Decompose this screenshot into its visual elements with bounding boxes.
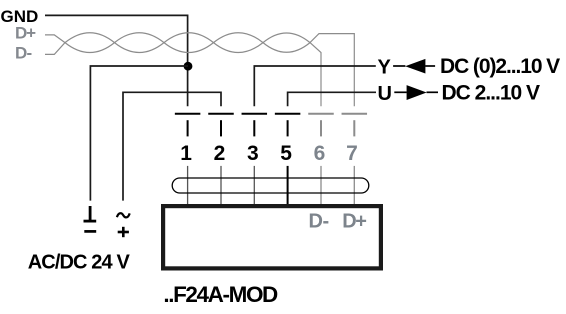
twisted pair wire D+ bbox=[45, 33, 354, 107]
actuator box ..F24A-MOD bbox=[163, 206, 381, 268]
wire terminal 5 into actuator bbox=[287, 166, 289, 204]
svg-text:D+: D+ bbox=[15, 23, 36, 42]
svg-text:Y: Y bbox=[378, 57, 392, 79]
svg-text:..F24A-MOD: ..F24A-MOD bbox=[163, 282, 278, 307]
svg-text:7: 7 bbox=[346, 142, 358, 165]
terminal 7 connector bbox=[342, 114, 368, 137]
wire terminal 3 into actuator bbox=[253, 166, 255, 204]
svg-text:D+: D+ bbox=[342, 211, 366, 233]
wire GND to terminal 1 bbox=[45, 15, 188, 106]
wire U to arrow bbox=[394, 91, 406, 93]
wire Y to terminal 3 bbox=[254, 66, 375, 106]
wire junction to AC neutral bbox=[90, 66, 188, 201]
arrow output U bbox=[407, 85, 427, 100]
twisted pair wire D- bbox=[45, 33, 321, 107]
wire terminal 7 into actuator bbox=[353, 166, 355, 204]
svg-text:1: 1 bbox=[180, 142, 192, 165]
terminal 1 connector bbox=[175, 114, 201, 137]
terminal 6 connector bbox=[308, 114, 334, 137]
arrow input Y bbox=[405, 59, 425, 74]
wire terminal 2 into actuator bbox=[220, 166, 222, 204]
svg-text:3: 3 bbox=[247, 142, 259, 165]
svg-text:DC (0)2...10 V: DC (0)2...10 V bbox=[440, 55, 560, 78]
symbol minus bbox=[84, 230, 96, 233]
svg-text:U: U bbox=[378, 83, 392, 105]
svg-text:D-: D- bbox=[15, 44, 31, 63]
terminal 3 connector bbox=[242, 114, 267, 137]
wire arrow U to DC label bbox=[427, 91, 439, 93]
svg-text:D-: D- bbox=[309, 211, 329, 233]
symbol ground bar (terminal 1) bbox=[84, 206, 97, 221]
wire arrow Y to DC label bbox=[425, 65, 435, 67]
terminal 5 connector bbox=[275, 114, 301, 137]
terminal 2 connector bbox=[208, 114, 234, 137]
svg-text:DC 2...10 V: DC 2...10 V bbox=[442, 81, 541, 104]
symbol AC tilde bbox=[117, 213, 130, 217]
svg-text:5: 5 bbox=[280, 142, 292, 165]
symbol plus bbox=[118, 227, 129, 237]
wire U to terminal 5 bbox=[288, 92, 376, 106]
svg-text:2: 2 bbox=[214, 142, 226, 165]
wire Y to arrow bbox=[393, 65, 405, 67]
wire terminal 6 into actuator bbox=[320, 166, 322, 204]
svg-text:AC/DC 24 V: AC/DC 24 V bbox=[28, 251, 131, 273]
cable bundle sleeve bbox=[172, 178, 369, 193]
wire AC hot to terminal 2 bbox=[123, 92, 221, 200]
svg-text:6: 6 bbox=[314, 142, 326, 165]
node junction GND bbox=[184, 62, 193, 71]
wire terminal 1 into actuator bbox=[187, 166, 189, 204]
